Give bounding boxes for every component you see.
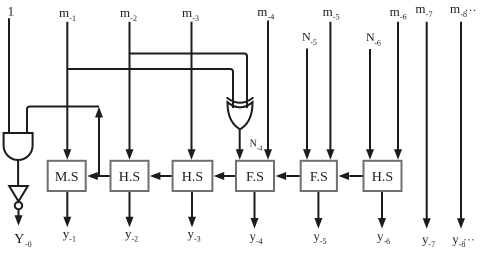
wire carry H.S to F.S	[338, 172, 362, 180]
wire output y-4 arrow	[251, 192, 259, 229]
wire carry F.S to F.S	[276, 172, 300, 180]
node 1 (constant input label)	[8, 4, 15, 19]
svg-text:-6: -6	[384, 237, 391, 246]
wire and-gate output to inverter	[17, 160, 19, 187]
wire input-1 vertical	[8, 18, 10, 133]
node m-6 label	[390, 4, 407, 22]
svg-text:H.S: H.S	[372, 170, 393, 185]
node m-2 label	[120, 5, 137, 23]
svg-text:M.S: M.S	[55, 170, 79, 185]
wire m-2 branch to XOR right input	[130, 54, 248, 109]
node y-3 label	[188, 226, 201, 244]
node N-5 label	[302, 30, 317, 48]
node m-8 label	[450, 1, 477, 19]
node y-8 label	[452, 232, 475, 250]
wire output y-3 arrow	[188, 192, 196, 227]
svg-text:1: 1	[8, 4, 15, 19]
svg-text:-3: -3	[194, 235, 201, 244]
wire N-5 vertical into F.S	[303, 49, 311, 160]
node y-2 label	[125, 226, 138, 244]
svg-text:-5: -5	[333, 13, 340, 22]
svg-text:F.S: F.S	[310, 170, 328, 185]
and-gate U1 (2-input, pointing down)	[4, 133, 33, 160]
svg-text:-4: -4	[257, 145, 263, 153]
block U9 H.S	[364, 161, 402, 191]
svg-text:H.S: H.S	[182, 170, 203, 185]
svg-text:m: m	[182, 5, 192, 20]
wire inverter output arrow to Y-0	[15, 209, 23, 226]
block U5 H.S	[111, 161, 149, 191]
svg-text:-2: -2	[130, 14, 137, 23]
node y-4 label	[250, 229, 263, 247]
wire feedback vertical from carry chain (arrow up)	[95, 107, 103, 176]
block U7 F.S	[236, 161, 274, 191]
block U6 H.S	[173, 161, 213, 191]
svg-text:-0: -0	[25, 240, 32, 249]
node N-6 label	[366, 30, 381, 48]
block U8 F.S	[301, 161, 337, 191]
wire m-7 pass-through to y-7	[423, 22, 431, 229]
wire m-3 vertical into H.S	[188, 22, 196, 160]
wire output y-1 arrow	[63, 192, 71, 227]
wire feedback horizontal into and-gate right input	[27, 107, 99, 134]
wire m-5 vertical into F.S	[326, 22, 334, 160]
wire output y-5 arrow	[314, 192, 322, 229]
wire m-2 vertical into H.S	[126, 22, 134, 160]
inverter bubble	[15, 202, 22, 209]
node N-4 label	[250, 139, 263, 153]
svg-text:m: m	[323, 4, 333, 19]
svg-text:-7: -7	[426, 10, 433, 19]
node y-5 label	[313, 229, 326, 247]
wire m-1 vertical into M.S	[63, 22, 71, 160]
wire carry F.S to H.S	[214, 172, 235, 180]
svg-text:-4: -4	[268, 13, 275, 22]
wire carry H.S to H.S	[150, 172, 172, 180]
svg-text:-5: -5	[310, 38, 317, 47]
node m-7 label	[415, 1, 432, 19]
wire m-8 pass-through to y-8	[457, 22, 465, 229]
svg-text:m: m	[59, 5, 69, 20]
node m-3 label	[182, 5, 199, 23]
node y-1 label	[63, 226, 76, 244]
wire N-6 vertical into H.S	[366, 49, 374, 160]
svg-text:-3: -3	[192, 14, 199, 23]
svg-text:m: m	[120, 5, 130, 20]
svg-text:-1: -1	[69, 235, 76, 244]
wire m-6 vertical into H.S	[394, 22, 402, 160]
svg-text:m: m	[415, 1, 425, 16]
wire carry H.S to M.S	[87, 172, 109, 180]
svg-text:F.S: F.S	[246, 170, 264, 185]
svg-text:-6: -6	[400, 12, 407, 21]
wire output y-2 arrow	[126, 192, 134, 227]
svg-text:···: ···	[465, 3, 477, 17]
node Y-0 label	[14, 232, 31, 249]
node m-1 label	[59, 5, 76, 23]
svg-text:-1: -1	[69, 14, 76, 23]
svg-text:Y: Y	[14, 232, 24, 247]
svg-text:···: ···	[463, 233, 475, 247]
svg-text:m: m	[257, 4, 267, 19]
node y-7 label	[422, 232, 435, 250]
wire output y-6 arrow	[378, 192, 386, 229]
svg-text:-5: -5	[320, 237, 327, 246]
svg-text:-6: -6	[374, 39, 381, 48]
inverter U2 (triangle)	[9, 186, 28, 201]
wire xor output N-4 into F.S	[236, 129, 244, 160]
svg-text:-4: -4	[256, 237, 263, 246]
wire m-4 vertical into F.S	[264, 21, 272, 160]
svg-text:m: m	[450, 1, 460, 16]
node y-6 label	[377, 229, 390, 247]
block U4 M.S	[48, 161, 86, 191]
svg-text:-2: -2	[132, 235, 139, 244]
svg-text:H.S: H.S	[119, 170, 140, 185]
wire m-1 branch to XOR left input	[67, 69, 233, 108]
xor-gate U3 (pointing down)	[227, 98, 254, 130]
svg-text:-7: -7	[429, 240, 436, 249]
node m-5 label	[323, 4, 340, 22]
svg-text:m: m	[390, 4, 400, 19]
node m-4 label	[257, 4, 274, 22]
